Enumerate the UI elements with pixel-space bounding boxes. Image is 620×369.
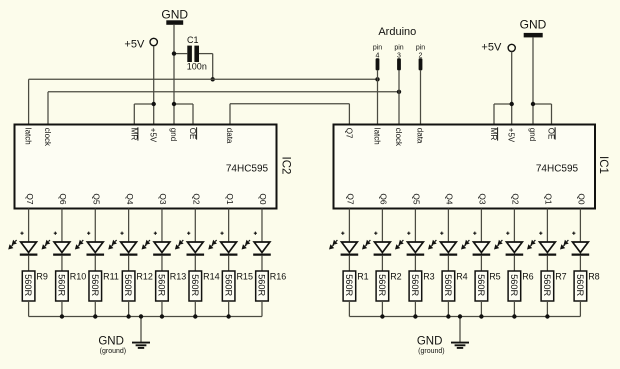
svg-text:Q5: Q5: [91, 193, 101, 205]
svg-text:Q3: Q3: [478, 193, 488, 205]
IC U2 74HC595 body: [15, 125, 277, 209]
LED anode plus mark: [120, 232, 123, 235]
LED IC2-Q7: [8, 240, 37, 255]
resistor R3 560R: [409, 271, 435, 301]
wire MR to +5V bracket (IC2): [134, 104, 153, 125]
pin Q0 bottom IC1: [577, 193, 587, 205]
LED anode plus mark: [572, 232, 575, 235]
node pin4 junction: [375, 77, 379, 81]
svg-text:latch: latch: [373, 128, 382, 145]
wire LED to R8: [579, 256, 581, 271]
resistor R4 560R: [442, 271, 468, 301]
wire IC1 Q6 to LED: [381, 209, 383, 243]
wire +5V to IC2: [153, 46, 155, 125]
resistor R16 560R: [256, 271, 287, 301]
wire R8 to ground rail: [579, 301, 581, 317]
svg-text:R5: R5: [489, 272, 501, 282]
wire +5V to IC1: [511, 52, 513, 125]
node rail junction: [226, 314, 230, 318]
svg-text:R3: R3: [423, 272, 435, 282]
wire Arduino pin2 to IC1 data: [420, 70, 422, 124]
svg-text:560R: 560R: [377, 274, 387, 296]
svg-text:560R: 560R: [190, 274, 200, 296]
pin Q3 bottom IC1: [478, 193, 488, 205]
LED anode plus mark: [539, 232, 542, 235]
node rail junction: [512, 314, 516, 318]
LED IC1-Q3: [461, 240, 490, 255]
node MR-+5V junction IC1: [510, 102, 514, 106]
wire LED to R13: [161, 256, 163, 271]
power +5V (right): [481, 42, 515, 54]
pin Q7 serial IC1: [344, 128, 353, 139]
svg-text:gnd: gnd: [169, 128, 178, 141]
wire LED to R6: [513, 256, 515, 271]
label 74HC595 (IC1): [536, 164, 579, 175]
wire C1 right to latch net: [199, 54, 213, 80]
resistor R8 560R: [574, 271, 600, 301]
wire LED to R15: [228, 256, 230, 271]
pin Q6 bottom IC2: [58, 193, 68, 205]
power +5V (left): [124, 38, 157, 50]
pin data IC1: [416, 128, 425, 144]
svg-text:GND: GND: [417, 335, 443, 347]
svg-text:(ground): (ground): [100, 348, 126, 355]
wire R7 to ground rail: [546, 301, 548, 317]
resistor R12 560R: [122, 271, 153, 301]
wire LED to R1: [348, 256, 350, 271]
pin Q4 bottom IC1: [445, 193, 455, 205]
pin latch IC2: [24, 128, 33, 145]
svg-text:Arduino: Arduino: [378, 26, 416, 38]
wire R4 to ground rail: [447, 301, 449, 317]
pin MR IC1: [489, 127, 498, 140]
svg-text:R16: R16: [270, 272, 287, 282]
svg-text:R7: R7: [555, 272, 567, 282]
label 74HC595 (IC2): [226, 164, 269, 175]
wire C1 left to gnd: [174, 53, 187, 55]
node rail junction: [60, 314, 64, 318]
wire R15 to ground rail: [228, 301, 230, 317]
svg-text:OE: OE: [547, 128, 556, 140]
svg-text:+5V: +5V: [481, 42, 502, 54]
pin Q7 bottom IC2: [25, 193, 35, 205]
LED IC1-Q4: [428, 240, 457, 255]
svg-text:Q4: Q4: [125, 193, 135, 205]
svg-text:Q6: Q6: [379, 193, 389, 205]
ground symbol (earth): [451, 343, 469, 348]
wire LED to R4: [447, 256, 449, 271]
svg-text:data: data: [225, 128, 234, 144]
svg-text:Q7: Q7: [344, 128, 353, 139]
svg-text:560R: 560R: [123, 274, 133, 296]
pin MR IC2: [129, 127, 138, 140]
LED anode plus mark: [87, 232, 90, 235]
resistor R10 560R: [56, 271, 87, 301]
svg-text:100n: 100n: [187, 61, 207, 71]
wire R10 to ground rail: [61, 301, 63, 317]
wire IC2 Q6 to LED: [61, 209, 63, 243]
resistor R7 560R: [541, 271, 567, 301]
wire LED to R11: [94, 256, 96, 271]
node rail junction: [380, 314, 384, 318]
wire MR to +5V bracket (IC1): [494, 104, 512, 125]
LED anode plus mark: [20, 232, 23, 235]
wire ground rail: [29, 316, 262, 318]
svg-text:560R: 560R: [23, 274, 33, 296]
svg-text:GND: GND: [98, 335, 124, 347]
wire rail to ground symbol: [140, 317, 142, 343]
svg-text:Q7: Q7: [25, 193, 35, 205]
svg-text:pin: pin: [416, 44, 425, 51]
svg-text:Q5: Q5: [412, 193, 422, 205]
svg-text:R15: R15: [236, 272, 253, 282]
LED anode plus mark: [220, 232, 223, 235]
svg-text:Q2: Q2: [511, 193, 521, 205]
node pin3 junction: [397, 90, 401, 94]
node rail junction: [413, 314, 417, 318]
wire IC1 Q0 to LED: [579, 209, 581, 243]
LED IC1-Q5: [395, 240, 424, 255]
wire IC1 Q4 to LED: [447, 209, 449, 243]
pin Q2 bottom IC1: [511, 193, 521, 205]
wire LED to R14: [194, 256, 196, 271]
pin Q7 bottom IC1: [346, 193, 356, 205]
LED anode plus mark: [341, 232, 344, 235]
svg-text:data: data: [416, 128, 425, 144]
wire R14 to ground rail: [194, 301, 196, 317]
wire LED to R3: [414, 256, 416, 271]
wire LED to R12: [128, 256, 130, 271]
connector pin 4: [373, 44, 382, 70]
LED IC2-Q5: [75, 240, 104, 255]
pin Q4 bottom IC2: [125, 193, 135, 205]
wire LED to R7: [546, 256, 548, 271]
node rail junction: [93, 314, 97, 318]
svg-text:R6: R6: [522, 272, 534, 282]
LED IC1-Q6: [362, 240, 391, 255]
IC U1 74HC595 body: [334, 125, 596, 209]
wire R6 to ground rail: [513, 301, 515, 317]
pin Q1 bottom IC2: [225, 193, 235, 205]
node rail-ground junction: [458, 314, 462, 318]
svg-text:560R: 560R: [57, 274, 67, 296]
node rail junction: [126, 314, 130, 318]
svg-text:Q1: Q1: [225, 193, 235, 205]
svg-text:74HC595: 74HC595: [536, 164, 579, 175]
svg-text:GND: GND: [161, 8, 188, 22]
svg-text:Q1: Q1: [544, 193, 554, 205]
node rail junction: [160, 314, 164, 318]
svg-text:560R: 560R: [223, 274, 233, 296]
svg-text:R11: R11: [103, 272, 119, 282]
svg-text:clock: clock: [43, 128, 52, 147]
capacitor C1 100n: [187, 35, 207, 71]
svg-text:R13: R13: [170, 272, 187, 282]
wire rail to ground symbol: [459, 317, 461, 343]
wire IC2 Q4 to LED: [128, 209, 130, 243]
svg-text:IC1: IC1: [597, 156, 609, 174]
wire R11 to ground rail: [94, 301, 96, 317]
node C1-latch junction: [211, 77, 215, 81]
resistor R15 560R: [222, 271, 253, 301]
svg-text:MR: MR: [129, 128, 138, 141]
connector pin 2: [416, 44, 425, 70]
pin Q0 bottom IC2: [258, 193, 268, 205]
wire LED to R9: [28, 256, 30, 271]
wire R1 to ground rail: [348, 301, 350, 317]
wire IC2 Q7 to LED: [28, 209, 30, 243]
LED anode plus mark: [407, 232, 410, 235]
svg-text:GND: GND: [520, 18, 547, 32]
pin clock IC1: [394, 128, 403, 147]
label GND (ground): [98, 335, 126, 355]
pin OE IC2: [188, 127, 197, 139]
ground GND (top right): [520, 18, 547, 38]
connector pin 3: [394, 44, 403, 70]
wire data net (IC2 data to IC1 Q7 serial): [230, 104, 349, 125]
LED anode plus mark: [473, 232, 476, 235]
LED IC1-Q1: [527, 240, 556, 255]
wire R12 to ground rail: [128, 301, 130, 317]
LED anode plus mark: [440, 232, 443, 235]
svg-text:Q2: Q2: [192, 193, 202, 205]
LED anode plus mark: [187, 232, 190, 235]
svg-text:Q0: Q0: [577, 193, 587, 205]
wire gnd net IC2: [173, 25, 175, 125]
resistor R2 560R: [376, 271, 402, 301]
svg-text:pin: pin: [373, 44, 382, 51]
wire R3 to ground rail: [414, 301, 416, 317]
LED IC2-Q1: [208, 240, 237, 255]
node OE-gnd junction: [172, 102, 176, 106]
svg-text:R8: R8: [588, 272, 600, 282]
node rail junction: [446, 314, 450, 318]
LED anode plus mark: [54, 232, 57, 235]
Arduino label: [378, 26, 416, 38]
svg-text:R9: R9: [36, 272, 48, 282]
svg-text:MR: MR: [489, 128, 498, 141]
pin Q5 bottom IC2: [91, 193, 101, 205]
wire ground rail: [349, 316, 580, 318]
svg-text:560R: 560R: [157, 274, 167, 296]
label IC2: [280, 157, 292, 175]
LED anode plus mark: [154, 232, 157, 235]
svg-text:Q4: Q4: [445, 193, 455, 205]
svg-text:Q7: Q7: [346, 193, 356, 205]
pin gnd IC2: [169, 128, 178, 141]
svg-text:+5V: +5V: [124, 39, 145, 51]
wire R2 to ground rail: [381, 301, 383, 317]
node C1-gnd junction: [172, 51, 176, 55]
LED IC2-Q0: [242, 240, 271, 255]
wire latch net (IC2 latch to Arduino pin4): [29, 79, 378, 124]
LED IC2-Q2: [175, 240, 204, 255]
svg-text:R10: R10: [70, 272, 87, 282]
wire R16 to ground rail: [261, 301, 263, 317]
svg-text:R2: R2: [390, 272, 402, 282]
svg-text:Q3: Q3: [158, 193, 168, 205]
wire R5 to ground rail: [480, 301, 482, 317]
wire IC1 Q7 to LED: [348, 209, 350, 243]
node rail junction: [479, 314, 483, 318]
wire Arduino pin4 to IC1 latch: [377, 70, 379, 124]
svg-text:R1: R1: [357, 272, 369, 282]
label IC1: [597, 156, 609, 174]
pin data IC2: [225, 128, 234, 144]
svg-text:560R: 560R: [476, 274, 486, 296]
svg-text:pin: pin: [394, 44, 403, 51]
svg-text:R14: R14: [203, 272, 220, 282]
wire IC1 Q2 to LED: [513, 209, 515, 243]
wire LED to R10: [61, 256, 63, 271]
resistor R5 560R: [475, 271, 501, 301]
LED IC1-Q2: [494, 240, 523, 255]
LED IC2-Q6: [42, 240, 71, 255]
pin +5V IC2: [149, 128, 158, 143]
ground GND (top left): [161, 8, 188, 25]
wire clock net (IC2 clock to Arduino pin3): [48, 92, 399, 125]
wire OE to gnd bracket (IC2): [174, 104, 193, 125]
resistor R1 560R: [343, 271, 369, 301]
svg-text:560R: 560R: [542, 274, 552, 296]
wire R13 to ground rail: [161, 301, 163, 317]
wire OE to gnd bracket (IC1): [533, 104, 552, 125]
resistor R13 560R: [156, 271, 187, 301]
node rail junction: [545, 314, 549, 318]
pin gnd IC1: [528, 128, 537, 141]
label GND (ground): [417, 335, 445, 355]
resistor R11 560R: [89, 271, 119, 301]
pin OE IC1: [547, 127, 556, 139]
svg-text:IC2: IC2: [280, 157, 292, 175]
LED IC2-Q3: [142, 240, 171, 255]
LED IC2-Q4: [108, 240, 137, 255]
svg-text:560R: 560R: [410, 274, 420, 296]
wire Arduino pin3 to IC1 clock: [398, 70, 400, 124]
svg-text:C1: C1: [187, 35, 199, 45]
ground symbol (earth): [132, 343, 150, 348]
svg-text:560R: 560R: [443, 274, 453, 296]
svg-text:R4: R4: [456, 272, 468, 282]
node rail junction: [193, 314, 197, 318]
svg-text:560R: 560R: [90, 274, 100, 296]
svg-text:560R: 560R: [509, 274, 519, 296]
resistor R6 560R: [508, 271, 534, 301]
wire IC1 Q1 to LED: [546, 209, 548, 243]
LED anode plus mark: [254, 232, 257, 235]
svg-text:gnd: gnd: [528, 128, 537, 141]
svg-text:560R: 560R: [257, 274, 267, 296]
pin Q5 bottom IC1: [412, 193, 422, 205]
svg-text:+5V: +5V: [507, 128, 516, 143]
wire IC1 Q3 to LED: [480, 209, 482, 243]
pin clock IC2: [43, 128, 52, 147]
svg-text:clock: clock: [394, 128, 403, 147]
wire IC2 Q3 to LED: [161, 209, 163, 243]
LED IC1-Q7: [329, 240, 358, 255]
node OE-gnd junction IC1: [531, 102, 535, 106]
wire IC2 Q5 to LED: [94, 209, 96, 243]
node MR-+5V junction: [152, 102, 156, 106]
svg-text:+5V: +5V: [149, 128, 158, 143]
LED anode plus mark: [374, 232, 377, 235]
pin +5V IC1: [507, 128, 516, 143]
svg-text:Q0: Q0: [258, 193, 268, 205]
svg-text:(ground): (ground): [418, 348, 444, 355]
LED anode plus mark: [506, 232, 509, 235]
wire IC1 Q5 to LED: [414, 209, 416, 243]
wire IC2 Q0 to LED: [261, 209, 263, 243]
svg-text:Q6: Q6: [58, 193, 68, 205]
svg-text:latch: latch: [24, 128, 33, 145]
node rail-ground junction: [139, 314, 143, 318]
wire LED to R2: [381, 256, 383, 271]
wire IC2 Q2 to LED: [194, 209, 196, 243]
wire R9 to ground rail: [28, 301, 30, 317]
pin Q2 bottom IC2: [192, 193, 202, 205]
svg-text:74HC595: 74HC595: [226, 164, 269, 175]
resistor R14 560R: [189, 271, 220, 301]
pin Q3 bottom IC2: [158, 193, 168, 205]
pin Q1 bottom IC1: [544, 193, 554, 205]
svg-text:OE: OE: [188, 128, 197, 140]
wire LED to R16: [261, 256, 263, 271]
svg-text:R12: R12: [136, 272, 153, 282]
LED IC1-Q0: [560, 240, 589, 255]
wire gnd net IC1: [532, 37, 534, 124]
wire IC2 Q1 to LED: [228, 209, 230, 243]
wire LED to R5: [480, 256, 482, 271]
svg-text:560R: 560R: [344, 274, 354, 296]
pin Q6 bottom IC1: [379, 193, 389, 205]
svg-text:560R: 560R: [575, 274, 585, 296]
resistor R9 560R: [22, 271, 48, 301]
pin latch IC1: [373, 128, 382, 145]
